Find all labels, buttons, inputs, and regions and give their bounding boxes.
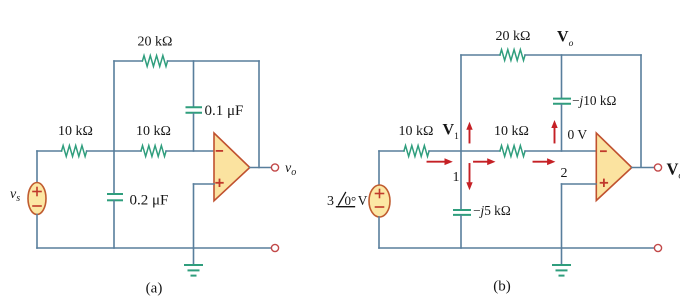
op-amp (a) inverting input minus mark (217, 150, 223, 152)
wire: top horizontal right of 20k (168, 60, 259, 62)
svg-text:Vo: Vo (667, 160, 680, 182)
capacitor -j10 kOhm (b) (554, 98, 570, 100)
terminal: output vo (a) (271, 164, 278, 171)
svg-text:10 kΩ: 10 kΩ (494, 124, 529, 139)
wire: non-inverting input lead (b) (562, 183, 597, 185)
svg-text:−j10 kΩ: −j10 kΩ (572, 93, 616, 108)
wire: source bottom lead (b) (378, 217, 380, 248)
wire: bottom rail (b) (379, 247, 654, 249)
svg-text:V: V (358, 193, 368, 208)
wire: feedback right vertical down to output node (258, 61, 260, 168)
op-amp U (a) (214, 133, 250, 201)
op-amp (a) non-inverting input plus mark (216, 180, 223, 187)
resistor R=10 kOhm second (a) (141, 146, 166, 157)
svg-text:V1: V1 (443, 122, 460, 143)
wire: source bottom lead (36, 215, 38, 249)
wire: top horizontal right of 20k (b) (525, 54, 641, 56)
wire: top horizontal left of 20k (b) (461, 54, 500, 56)
wire: source top lead (36, 151, 38, 183)
source 3/0 plus mark (376, 190, 384, 198)
svg-text:3: 3 (327, 194, 334, 209)
voltage source vs (a) (28, 183, 46, 215)
wire: 0.2uF branch upper (node B down) (113, 151, 115, 193)
wire: 0.1uF branch lower segment (193, 114, 195, 152)
wire: R1 to node1 to R2 (b) (429, 150, 500, 152)
svg-text:vo: vo (285, 161, 296, 178)
wire: input line from source to R1 (37, 150, 62, 152)
wire: non-inverting input lead (194, 183, 215, 185)
source vs minus mark (33, 205, 41, 207)
phasor angle slash-underline mark (337, 193, 355, 207)
wire: node1 vertical full (top wire to bottom rail) (460, 55, 462, 209)
current arrow up at 0V (b) (551, 120, 557, 143)
wire: non-inverting to ground vertical (193, 184, 195, 264)
wire: feedback right vertical (b) (640, 55, 642, 167)
wire: bottom rail (a) (37, 247, 272, 249)
resistor R=10 kOhm input (a) (62, 146, 87, 157)
wire: R2 to op-amp inverting input (b) (525, 150, 596, 152)
current arrow down at node1 (b) (466, 164, 472, 190)
svg-text:(a): (a) (146, 281, 163, 297)
capacitor C=0.2 uF (a) (108, 193, 122, 195)
wire: top feedback loop left vertical (node B up) (113, 61, 115, 151)
svg-text:10 kΩ: 10 kΩ (136, 124, 171, 139)
svg-text:vs: vs (10, 187, 20, 204)
svg-text:20 kΩ: 20 kΩ (138, 35, 173, 50)
ground (a) (185, 264, 202, 266)
voltage source 3/0 V (b) (369, 185, 390, 217)
svg-text:2: 2 (561, 166, 568, 181)
svg-text:0.2 μF: 0.2 μF (130, 192, 169, 208)
svg-text:10 kΩ: 10 kΩ (58, 124, 93, 139)
wire: input line from source to R1 (b) (379, 150, 404, 152)
op-amp U (b) (596, 133, 632, 201)
svg-text:20 kΩ: 20 kΩ (496, 29, 531, 44)
wire: non-inverting to ground vertical (b) (561, 184, 563, 264)
wire: -j10k branch lower segment (561, 105, 563, 152)
wire: 0.2uF branch lower (113, 201, 115, 248)
ground (b) (553, 264, 570, 266)
wire: op-amp output (a) (250, 167, 272, 169)
wire: op-amp output (b) (632, 167, 655, 169)
svg-text:0 V: 0 V (568, 127, 588, 142)
current arrow right 3 (b) (534, 158, 556, 165)
svg-text:Vo: Vo (557, 29, 574, 50)
source vs plus mark (33, 188, 41, 196)
terminal: bottom output (a) (271, 244, 278, 251)
capacitor -j5 kOhm (b) (454, 209, 470, 211)
current arrow right 2 (b) (474, 158, 496, 165)
svg-text:0°: 0° (345, 193, 357, 208)
resistor R=20 kOhm (b) (500, 50, 525, 61)
svg-text:−j5 kΩ: −j5 kΩ (473, 203, 511, 218)
capacitor C=0.1 uF (a) (187, 106, 202, 108)
wire: -j5k branch lower (460, 216, 462, 249)
op-amp (b) non-inverting input plus mark (601, 180, 608, 187)
wire: source top lead (b) (378, 151, 380, 185)
current arrow right 1 (b) (428, 158, 453, 165)
terminal: output Vo (b) (654, 164, 661, 171)
svg-text:(b): (b) (493, 279, 511, 295)
wire: -j10k branch upper segment (561, 55, 563, 98)
svg-text:0.1 μF: 0.1 μF (205, 103, 244, 119)
resistor R=10 kOhm second (b) (500, 146, 525, 157)
resistor R=20 kOhm (a) (142, 56, 167, 67)
wire: between R1 and R2 (87, 150, 141, 152)
resistor R=10 kOhm input (b) (404, 146, 429, 157)
source 3/0 minus mark (376, 206, 384, 208)
svg-text:1: 1 (453, 170, 460, 185)
wire: 0.1uF branch upper segment (193, 61, 195, 107)
terminal: bottom output (b) (654, 244, 661, 251)
wire: top horizontal left of 20k (114, 60, 142, 62)
current arrow up at node1 (b) (466, 122, 472, 143)
wire: R2 to op-amp inverting input (166, 150, 214, 152)
svg-text:10 kΩ: 10 kΩ (399, 124, 434, 139)
op-amp (b) inverting input minus mark (601, 150, 606, 152)
